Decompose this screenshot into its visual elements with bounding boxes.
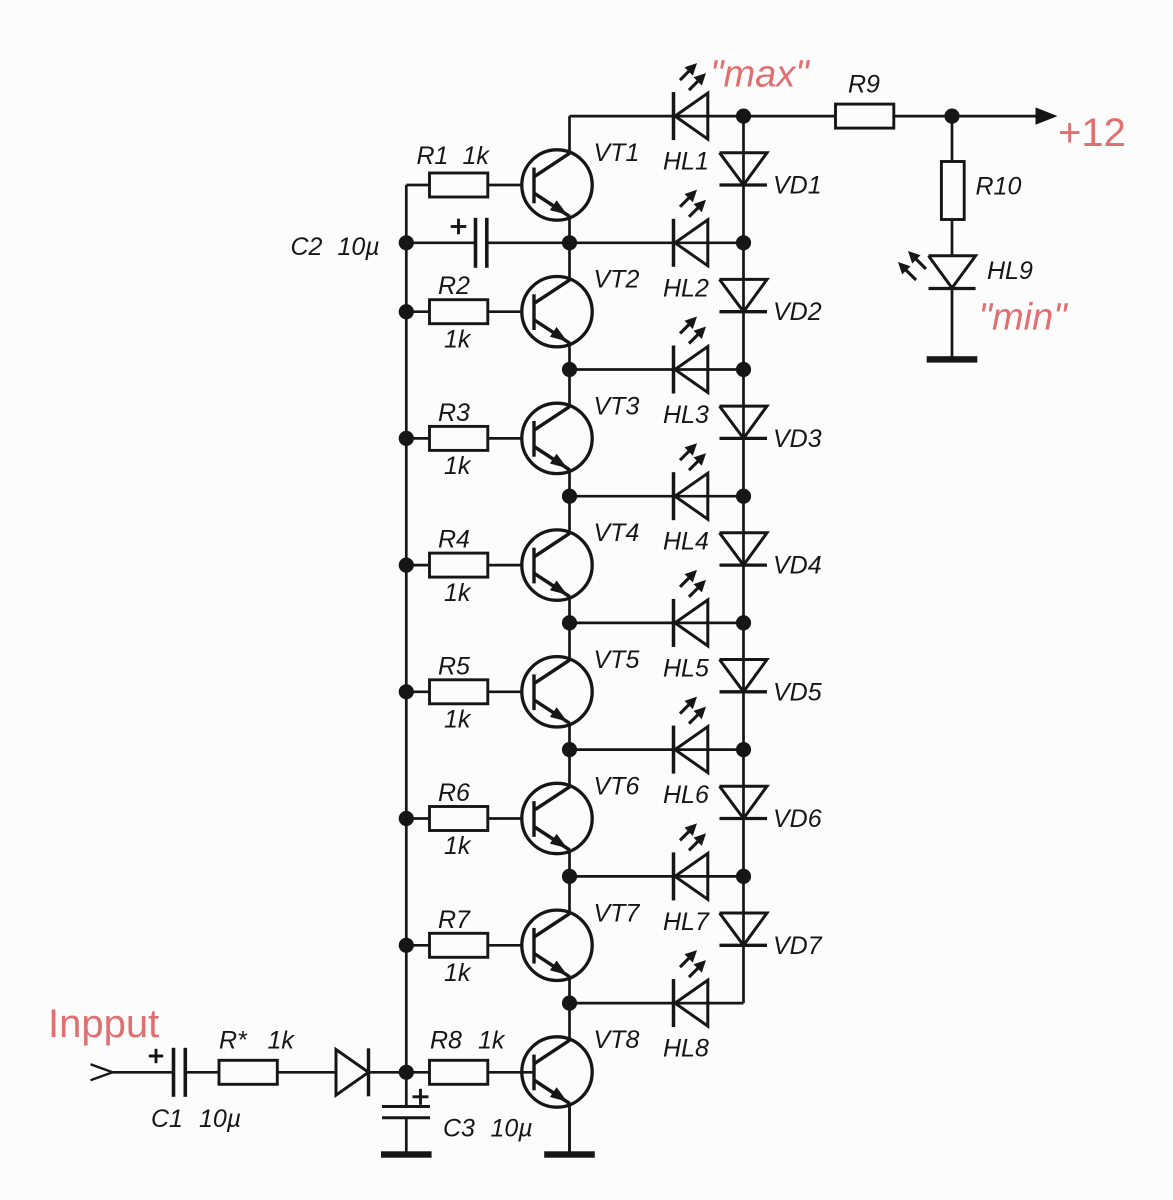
node left bus C2 junction	[399, 235, 414, 250]
svg-text:VD3: VD3	[773, 425, 822, 453]
wire VT8 emitter to ground	[568, 1104, 571, 1152]
resistor R7	[430, 933, 488, 957]
wire bus to R3	[406, 437, 429, 440]
LED HL3	[674, 317, 708, 394]
svg-text:1k: 1k	[463, 142, 491, 170]
+12 supply arrow	[1036, 107, 1058, 124]
svg-text:HL9: HL9	[987, 257, 1033, 285]
wire R8 to VT8 base	[488, 1071, 534, 1074]
svg-text:10µ: 10µ	[199, 1105, 241, 1133]
wire R6 to VT6 base	[488, 817, 534, 820]
svg-text:R6: R6	[438, 779, 470, 807]
wire bus to R1	[406, 184, 429, 187]
svg-text:VT1: VT1	[594, 139, 640, 167]
wire VT7 collector row to HL7	[570, 875, 744, 878]
wire left bias bus	[405, 185, 408, 1073]
ground under HL9	[927, 356, 978, 362]
wire HL9 to ground	[951, 289, 954, 358]
svg-text:HL2: HL2	[663, 274, 709, 302]
svg-text:1k: 1k	[444, 832, 472, 860]
svg-text:1k: 1k	[478, 1027, 506, 1055]
LED HL6	[674, 697, 708, 774]
wire C1 to R*	[185, 1071, 219, 1074]
wire R3 to VT3 base	[488, 437, 534, 440]
wire bus to R2	[406, 310, 429, 313]
node rail junction row 8	[562, 996, 577, 1011]
transistor VT7	[522, 910, 592, 980]
wire R1 to VT1 base	[488, 184, 534, 187]
wire bus to R6	[406, 817, 429, 820]
svg-text:VT4: VT4	[594, 519, 640, 547]
transistor VT6	[522, 783, 592, 853]
resistor R5	[430, 680, 488, 704]
svg-text:VD5: VD5	[773, 678, 822, 706]
svg-text:VD7: VD7	[773, 932, 823, 960]
wire VT6 collector row to HL6	[570, 748, 744, 751]
diode VD7	[720, 913, 768, 945]
node right bus junction row 4	[736, 489, 751, 504]
diode VD1	[720, 153, 768, 185]
transistor VT8	[522, 1037, 592, 1107]
svg-text:1k: 1k	[444, 325, 472, 353]
wire bus to R7	[406, 944, 429, 947]
wire VT3 collector row to HL3	[570, 368, 744, 371]
LED HL4	[674, 443, 708, 520]
diode VD4	[720, 533, 768, 565]
node rail junction row 4	[562, 489, 577, 504]
node right bus junction row 2	[736, 235, 751, 250]
svg-text:R3: R3	[438, 399, 470, 427]
svg-text:HL6: HL6	[663, 781, 709, 809]
diode VD6	[720, 786, 768, 818]
svg-text:R4: R4	[438, 526, 470, 554]
transistor VT3	[522, 403, 592, 473]
svg-text:VD4: VD4	[773, 552, 822, 580]
svg-text:R5: R5	[438, 652, 470, 680]
diode VD2	[720, 279, 768, 311]
svg-text:HL3: HL3	[663, 401, 709, 429]
svg-text:HL7: HL7	[663, 908, 710, 936]
node +12 junction	[944, 109, 959, 124]
node left bus R5 junction	[399, 684, 414, 699]
transistor VT5	[522, 657, 592, 727]
ground under VT8	[544, 1151, 595, 1157]
svg-text:+12: +12	[1058, 111, 1126, 155]
wire +12 node to R10	[951, 116, 954, 161]
resistor R*	[219, 1060, 277, 1084]
node left bus R2 junction	[399, 304, 414, 319]
resistor R1	[430, 173, 488, 197]
resistor R9	[836, 104, 894, 128]
svg-text:1k: 1k	[268, 1027, 296, 1055]
svg-text:VT7: VT7	[594, 899, 641, 927]
node right bus junction row 3	[736, 362, 751, 377]
resistor R2	[430, 300, 488, 324]
wire VT4 collector row to HL4	[570, 495, 744, 498]
svg-text:R10: R10	[976, 173, 1022, 201]
node left bus R6 junction	[399, 811, 414, 826]
svg-text:VT3: VT3	[594, 392, 640, 420]
node rail junction row 2	[562, 235, 577, 250]
input terminal	[91, 1064, 113, 1080]
capacitor C2	[451, 218, 487, 268]
svg-text:C2: C2	[291, 233, 323, 261]
svg-text:Inpput: Inpput	[48, 1002, 159, 1046]
transistor VT1	[522, 150, 592, 220]
wire R4 to VT4 base	[488, 564, 534, 567]
node right bus junction row 5	[736, 615, 751, 630]
LED HL7	[674, 823, 708, 900]
wire bus to R5	[406, 690, 429, 693]
wire VT5 collector row to HL5	[570, 622, 744, 625]
svg-text:VT2: VT2	[594, 266, 640, 294]
wire R9 to +12 arrow	[894, 115, 1036, 118]
svg-text:VT5: VT5	[594, 646, 640, 674]
wire diode to node	[369, 1071, 430, 1074]
node right bus junction row 6	[736, 742, 751, 757]
diode VD3	[720, 406, 768, 438]
wire VT8 collector row to HL8	[570, 1002, 744, 1005]
node left bus R3 junction	[399, 431, 414, 446]
svg-text:1k: 1k	[444, 579, 472, 607]
svg-text:C1: C1	[151, 1105, 183, 1133]
diode VD input	[336, 1048, 369, 1096]
svg-text:HL8: HL8	[663, 1035, 709, 1063]
svg-text:VD6: VD6	[773, 805, 822, 833]
resistor R8	[430, 1060, 488, 1084]
capacitor C3	[382, 1089, 430, 1118]
node left bus R4 junction	[399, 558, 414, 573]
wire bus to C2	[406, 241, 475, 244]
svg-text:1k: 1k	[444, 959, 472, 987]
svg-text:VT8: VT8	[594, 1026, 640, 1054]
svg-text:VT6: VT6	[594, 773, 640, 801]
svg-text:VD1: VD1	[773, 172, 822, 200]
wire R7 to VT7 base	[488, 944, 534, 947]
transistor VT2	[522, 277, 592, 347]
svg-text:"max": "max"	[710, 54, 810, 96]
resistor R3	[430, 426, 488, 450]
svg-text:C3: C3	[443, 1115, 475, 1143]
wire transistor chain rail	[568, 116, 571, 1151]
LED HL1	[674, 63, 708, 140]
svg-text:R7: R7	[438, 906, 471, 934]
svg-text:"min": "min"	[979, 297, 1069, 339]
LED HL5	[674, 570, 708, 647]
node right bus junction row 7	[736, 869, 751, 884]
ground under C3	[381, 1151, 432, 1157]
svg-text:R2: R2	[438, 272, 470, 300]
resistor R6	[430, 807, 488, 831]
wire C2 to rail	[487, 241, 570, 244]
svg-text:HL1: HL1	[663, 148, 709, 176]
LED HL2	[674, 190, 708, 267]
LED HL8	[674, 950, 708, 1027]
wire VT2 collector row to HL2	[570, 241, 744, 244]
svg-text:10µ: 10µ	[338, 233, 380, 261]
svg-text:HL5: HL5	[663, 654, 709, 682]
wire bus to R4	[406, 564, 429, 567]
wire R10 to HL9	[951, 220, 954, 257]
svg-text:R*: R*	[219, 1027, 248, 1055]
svg-text:10µ: 10µ	[491, 1115, 533, 1143]
node input junction	[399, 1065, 414, 1080]
node left bus R7 junction	[399, 938, 414, 953]
wire R5 to VT5 base	[488, 690, 534, 693]
capacitor C1	[149, 1048, 186, 1097]
resistor R4	[430, 553, 488, 577]
resistor R10	[941, 162, 964, 220]
svg-text:1k: 1k	[444, 452, 472, 480]
svg-text:R9: R9	[848, 71, 880, 99]
wire top rail to R9	[570, 115, 836, 118]
diode VD5	[720, 660, 768, 692]
transistor VT4	[522, 530, 592, 600]
wire right LED bus	[742, 116, 745, 1003]
node right bus junction row 1	[736, 109, 751, 124]
wire C3 to ground	[405, 1118, 408, 1152]
node rail junction row 3	[562, 362, 577, 377]
svg-text:1k: 1k	[444, 706, 472, 734]
node rail junction row 6	[562, 742, 577, 757]
svg-text:VD2: VD2	[773, 298, 822, 326]
svg-text:HL4: HL4	[663, 528, 709, 556]
node rail junction row 7	[562, 869, 577, 884]
svg-text:R8: R8	[430, 1027, 462, 1055]
node rail junction row 5	[562, 615, 577, 630]
wire R* to diode	[277, 1071, 336, 1074]
wire node to C3	[405, 1072, 408, 1106]
LED HL9	[898, 251, 976, 289]
svg-text:R1: R1	[417, 142, 449, 170]
wire input to C1	[112, 1071, 174, 1074]
wire R2 to VT2 base	[488, 310, 534, 313]
